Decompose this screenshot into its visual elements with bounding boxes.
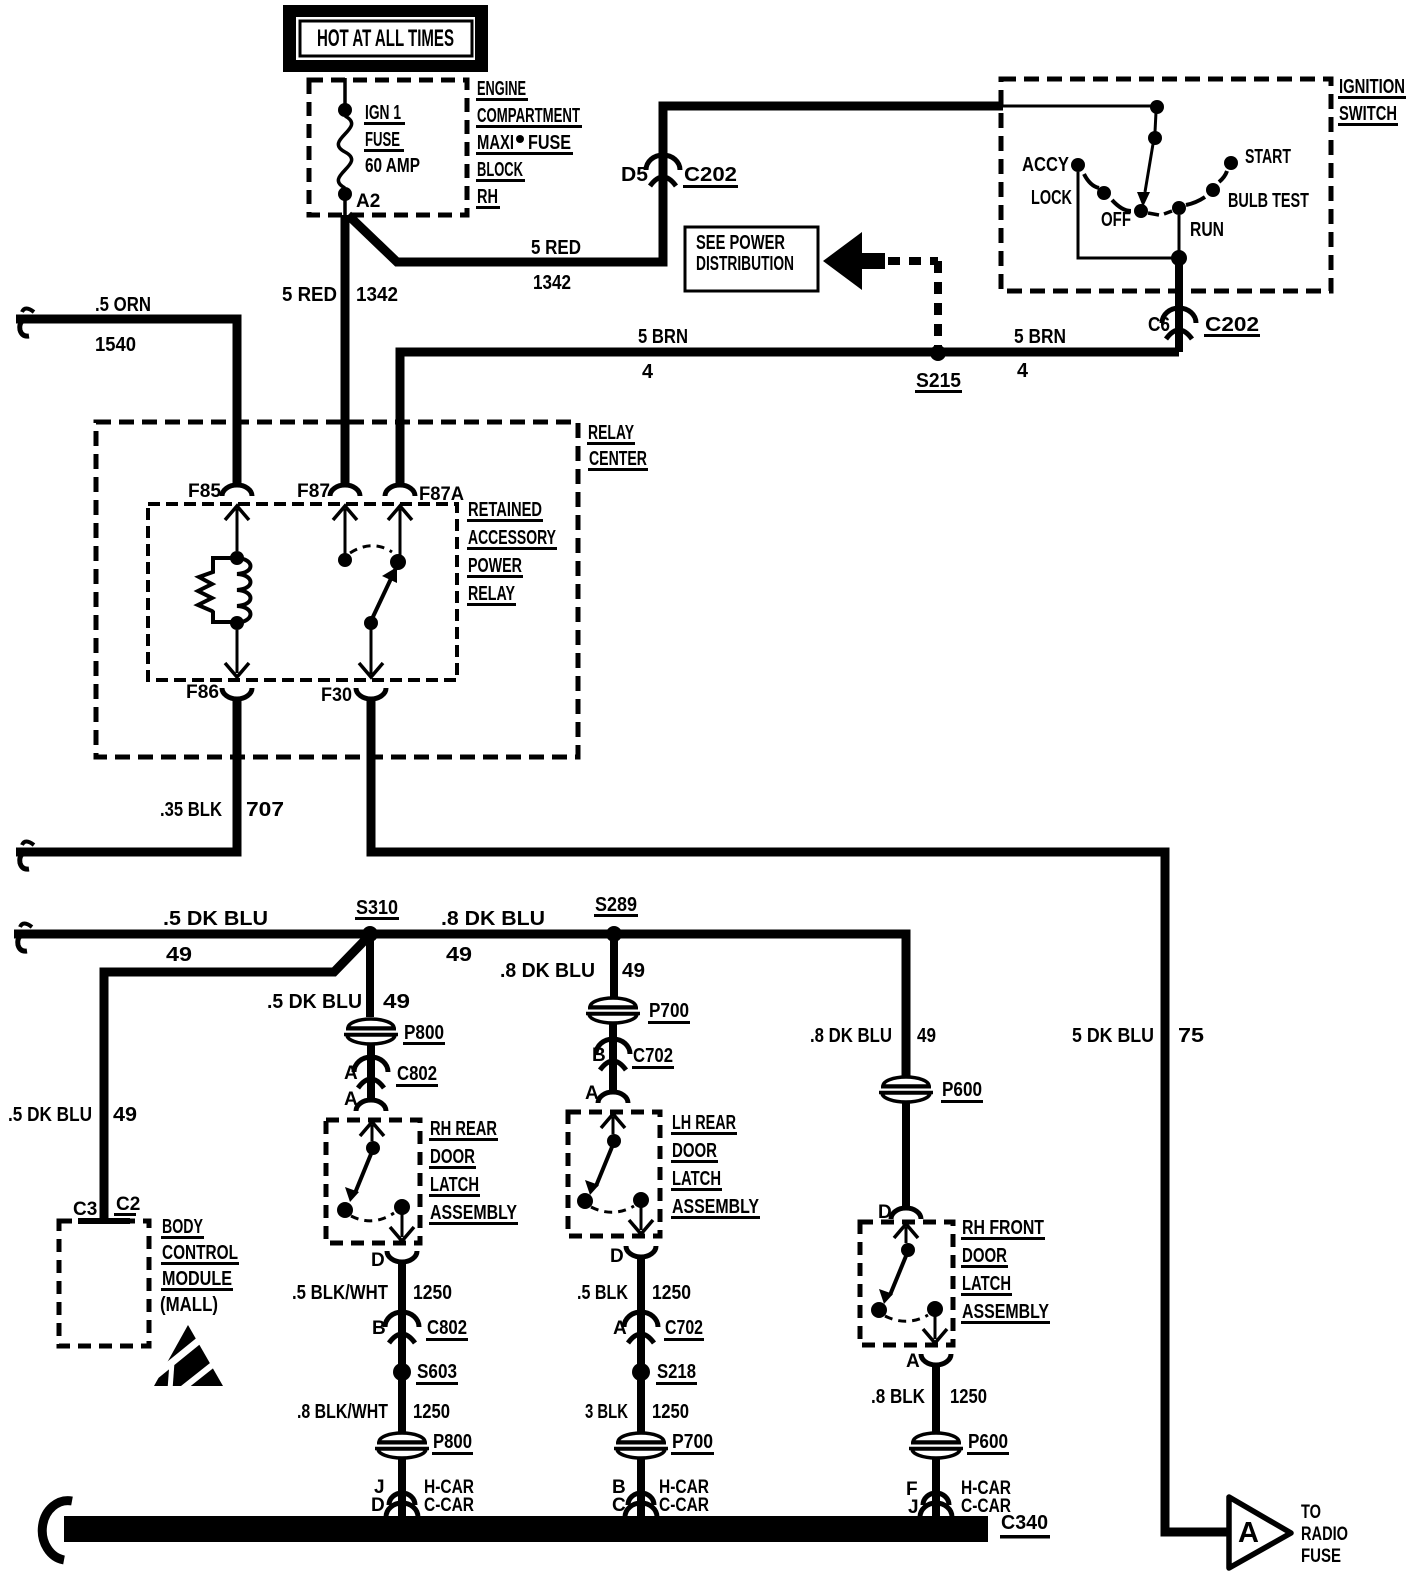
retained accessory power relay dashed box (148, 499, 557, 680)
svg-text:RETAINED: RETAINED (468, 499, 542, 521)
wire 5 RED 1342 branch from A2 to connector D5 C202 (348, 106, 1003, 294)
splice S218 (632, 1361, 697, 1385)
svg-text:RELAY: RELAY (468, 583, 515, 605)
svg-text:49: 49 (917, 1025, 936, 1047)
wire to rh front latch pin D (878, 1102, 921, 1223)
svg-text:START: START (1245, 146, 1291, 168)
svg-text:RADIO: RADIO (1301, 1524, 1348, 1545)
ignition switch contact START (1224, 146, 1291, 170)
svg-text:A: A (585, 1083, 599, 1104)
svg-text:.5 BLK/WHT: .5 BLK/WHT (292, 1282, 388, 1304)
connector B H-CAR C C-CAR to ground bus (612, 1459, 709, 1517)
svg-text:SEE POWER: SEE POWER (696, 232, 785, 254)
svg-text:C-CAR: C-CAR (659, 1495, 709, 1516)
latch pin D (610, 1246, 656, 1267)
svg-text:1250: 1250 (652, 1401, 689, 1423)
svg-text:ACCY: ACCY (1022, 154, 1070, 176)
svg-text:RELAY: RELAY (588, 422, 634, 444)
ignition switch output wiring to RUN junction (1078, 172, 1187, 352)
svg-text:49: 49 (113, 1104, 137, 1126)
engine compartment maxi fuse block dashed box (309, 80, 467, 215)
svg-text:C3: C3 (73, 1199, 97, 1220)
svg-text:S215: S215 (916, 370, 961, 392)
relay pin F30 (321, 663, 386, 706)
svg-text:HOT AT ALL TIMES: HOT AT ALL TIMES (317, 25, 454, 52)
ground bus C340 (42, 1501, 1050, 1560)
svg-text:RH REAR: RH REAR (430, 1118, 497, 1140)
svg-text:4: 4 (642, 361, 654, 383)
svg-text:C: C (612, 1495, 626, 1516)
relay pin F86 (186, 630, 252, 703)
svg-text:S603: S603 (417, 1361, 457, 1383)
svg-text:C6: C6 (1148, 314, 1170, 336)
svg-text:IGNITION: IGNITION (1339, 76, 1405, 98)
svg-text:A: A (613, 1318, 627, 1339)
svg-text:5 RED: 5 RED (531, 237, 581, 259)
relay coil with suppression resistor (198, 551, 251, 630)
svg-text:49: 49 (383, 991, 410, 1013)
svg-text:.8 BLK/WHT: .8 BLK/WHT (297, 1401, 388, 1423)
svg-text:F87: F87 (297, 481, 330, 502)
svg-text:ASSEMBLY: ASSEMBLY (962, 1301, 1050, 1323)
wire 3 BLK 1250 (585, 1380, 689, 1432)
svg-text:BLOCK: BLOCK (477, 159, 523, 181)
svg-text:707: 707 (246, 799, 284, 821)
svg-text:FUSE: FUSE (365, 129, 400, 151)
svg-text:60 AMP: 60 AMP (365, 155, 420, 177)
svg-text:.5 DK BLU: .5 DK BLU (267, 991, 362, 1013)
svg-text:S310: S310 (356, 897, 398, 919)
svg-text:LOCK: LOCK (1031, 187, 1072, 209)
svg-text:DISTRIBUTION: DISTRIBUTION (696, 253, 794, 275)
wire .5 ORN 1540 to relay F85 (16, 294, 237, 487)
svg-text:A: A (344, 1089, 358, 1110)
connector C802 pin A (344, 1057, 438, 1088)
svg-text:A: A (1238, 1517, 1259, 1549)
svg-text:C-CAR: C-CAR (424, 1495, 474, 1516)
svg-text:1342: 1342 (533, 272, 571, 294)
splice S215 (915, 345, 962, 393)
svg-text:5 BRN: 5 BRN (638, 326, 688, 348)
svg-text:D: D (371, 1250, 385, 1271)
svg-text:D: D (371, 1495, 385, 1516)
wire .5 DK BLU 49 from S310 down (267, 938, 410, 1017)
svg-text:1250: 1250 (413, 1282, 452, 1304)
svg-text:BODY: BODY (162, 1216, 203, 1238)
ignition switch contact LOCK (1031, 186, 1111, 209)
wire .35 BLK 707 from F86 to left (16, 698, 284, 869)
svg-text:C802: C802 (427, 1317, 467, 1339)
svg-text:ASSEMBLY: ASSEMBLY (672, 1196, 760, 1218)
svg-text:B: B (372, 1318, 386, 1339)
svg-text:MAXI: MAXI (477, 132, 514, 154)
lh rear door latch switch (577, 1114, 653, 1234)
svg-text:IGN 1: IGN 1 (365, 102, 401, 124)
svg-text:MODULE: MODULE (162, 1268, 232, 1290)
svg-text:COMPARTMENT: COMPARTMENT (477, 105, 580, 127)
svg-text:P600: P600 (968, 1431, 1008, 1453)
ignition switch contact BULB TEST (1206, 183, 1309, 212)
svg-text:S218: S218 (657, 1361, 696, 1383)
svg-text:RH: RH (477, 186, 498, 208)
svg-text:C340: C340 (1001, 1512, 1048, 1534)
relay pin F87A (385, 484, 464, 556)
svg-text:4: 4 (1017, 360, 1029, 382)
svg-text:FUSE: FUSE (528, 132, 571, 154)
svg-text:49: 49 (622, 960, 645, 982)
wire 5 BRN 4 from C6 to relay F87A (400, 326, 1179, 487)
connector F H-CAR J C-CAR to ground bus (906, 1459, 1011, 1518)
connector D5 C202 (621, 155, 738, 188)
rh front door latch switch (871, 1224, 947, 1343)
svg-text:A: A (906, 1351, 920, 1372)
arrow to see power distribution (823, 232, 885, 290)
connector C702 pin A (613, 1312, 704, 1343)
svg-text:DOOR: DOOR (430, 1146, 475, 1168)
svg-text:F30: F30 (321, 685, 352, 706)
svg-text:C702: C702 (633, 1045, 673, 1067)
svg-text:1250: 1250 (413, 1401, 450, 1423)
svg-text:49: 49 (166, 944, 192, 966)
svg-text:.5 DK BLU: .5 DK BLU (8, 1104, 92, 1126)
svg-text:(MALL): (MALL) (160, 1294, 218, 1316)
wire .5 DK BLU 49 door lock feed bus (14, 908, 906, 1076)
connector C6 C202 (1148, 308, 1260, 339)
svg-text:1250: 1250 (950, 1386, 987, 1408)
relay switch (338, 546, 406, 674)
wire .5 BLK 1250 (577, 1257, 691, 1364)
engine compartment maxi fuse block rh label (476, 78, 582, 209)
svg-text:CENTER: CENTER (589, 448, 647, 470)
svg-text:C202: C202 (684, 164, 737, 186)
wire 5 DK BLU 75 from F30 to radio fuse (371, 698, 1228, 1532)
svg-text:.8 BLK: .8 BLK (871, 1386, 925, 1408)
ignition switch contact RUN (1172, 201, 1224, 241)
ignition switch contact OFF (1101, 204, 1148, 231)
svg-text:49: 49 (446, 944, 472, 966)
connector J H-CAR D C-CAR to ground bus (371, 1459, 474, 1517)
svg-text:1540: 1540 (95, 334, 136, 356)
svg-text:P600: P600 (942, 1079, 982, 1101)
svg-text:F85: F85 (188, 481, 221, 502)
relay pin F85 (188, 481, 252, 551)
relay pin F87 (297, 481, 360, 554)
see power distribution reference box (685, 227, 818, 291)
svg-text:LH REAR: LH REAR (672, 1112, 736, 1134)
svg-text:D5: D5 (621, 164, 648, 186)
svg-text:.5 ORN: .5 ORN (95, 294, 151, 316)
svg-text:B: B (592, 1045, 606, 1066)
svg-text:.35 BLK: .35 BLK (160, 799, 222, 821)
rh rear door latch assembly dashed box (326, 1118, 518, 1243)
svg-text:A2: A2 (356, 191, 380, 212)
latch pin A (344, 1089, 386, 1111)
svg-text:3 BLK: 3 BLK (585, 1401, 628, 1423)
connector C802 pin B (372, 1312, 468, 1343)
svg-text:SWITCH: SWITCH (1339, 103, 1397, 125)
svg-text:LATCH: LATCH (962, 1273, 1011, 1295)
wire to connector C802 (367, 1044, 375, 1100)
wire .8 BLK 1250 (871, 1365, 987, 1432)
splice S603 (393, 1361, 458, 1385)
grommet P800 (344, 1019, 445, 1045)
latch pin A (585, 1083, 628, 1104)
splice S310 (355, 897, 399, 942)
svg-text:DOOR: DOOR (962, 1245, 1007, 1267)
svg-text:POWER: POWER (468, 555, 522, 577)
svg-text:F87A: F87A (419, 484, 464, 505)
grommet P700 (586, 998, 690, 1024)
svg-text:ENGINE: ENGINE (477, 78, 526, 100)
connector C702 pin B (592, 1023, 674, 1092)
svg-text:.8 DK BLU: .8 DK BLU (810, 1025, 892, 1047)
svg-text:D: D (610, 1246, 624, 1267)
body control module dashed box (59, 1216, 239, 1346)
svg-text:A: A (344, 1063, 358, 1084)
dashed wire from S215 to arrow (888, 261, 938, 346)
grommet P800 lower (375, 1431, 473, 1458)
svg-text:.5 BLK: .5 BLK (577, 1282, 628, 1304)
wire .8 DK BLU 49 from S289 down (500, 938, 645, 997)
svg-text:P800: P800 (433, 1431, 472, 1453)
grommet P700 lower (614, 1431, 714, 1458)
latch pin A (906, 1351, 951, 1372)
svg-text:DOOR: DOOR (672, 1140, 717, 1162)
svg-text:C2: C2 (116, 1194, 140, 1215)
svg-text:RUN: RUN (1190, 219, 1224, 241)
svg-text:J: J (908, 1497, 919, 1518)
relay center dashed box (96, 422, 648, 757)
ignition switch detent arcs (1084, 171, 1227, 215)
svg-text:1250: 1250 (652, 1282, 691, 1304)
splice S289 (594, 894, 638, 942)
svg-text:FUSE: FUSE (1301, 1546, 1341, 1567)
svg-text:75: 75 (1178, 1025, 1204, 1047)
rh rear door latch switch (337, 1122, 414, 1241)
svg-text:TO: TO (1301, 1502, 1321, 1523)
svg-text:BULB TEST: BULB TEST (1228, 190, 1309, 212)
ESD sensitive device symbol (154, 1325, 225, 1393)
svg-text:P800: P800 (404, 1022, 444, 1044)
lh rear door latch assembly dashed box (568, 1112, 760, 1236)
svg-text:C702: C702 (665, 1317, 703, 1339)
svg-text:P700: P700 (672, 1431, 713, 1453)
grommet P600 (879, 1077, 983, 1103)
svg-text:S289: S289 (595, 894, 637, 916)
svg-text:.5 DK BLU: .5 DK BLU (163, 908, 268, 930)
svg-text:LATCH: LATCH (430, 1174, 479, 1196)
wire .8 BLK/WHT 1250 (297, 1380, 450, 1432)
grommet P600 lower (909, 1431, 1009, 1458)
svg-text:5 DK BLU: 5 DK BLU (1072, 1025, 1154, 1047)
svg-text:C802: C802 (397, 1063, 437, 1085)
svg-text:LATCH: LATCH (672, 1168, 721, 1190)
svg-text:RH FRONT: RH FRONT (962, 1217, 1044, 1239)
svg-text:1342: 1342 (356, 284, 398, 306)
ignition switch dashed box (1001, 76, 1406, 291)
wire .5 DK BLU 49 from S310 to body control module (8, 939, 366, 1218)
off-page reference A to radio fuse (1229, 1497, 1348, 1568)
wire .8 DK BLU 49 right branch labels (810, 1025, 936, 1047)
svg-text:.8 DK BLU: .8 DK BLU (500, 960, 595, 982)
svg-text:CONTROL: CONTROL (162, 1242, 238, 1264)
svg-text:5 RED: 5 RED (282, 284, 337, 306)
hot-at-all-times power tag (283, 5, 488, 72)
svg-text:C202: C202 (1205, 314, 1259, 336)
svg-text:.8 DK BLU: .8 DK BLU (441, 908, 545, 930)
svg-text:5 BRN: 5 BRN (1014, 326, 1066, 348)
wire .5 BLK/WHT 1250 (292, 1262, 452, 1364)
svg-text:F86: F86 (186, 682, 219, 703)
latch pin D (371, 1250, 417, 1271)
svg-text:P700: P700 (649, 1000, 689, 1022)
connector C3 C2 at body control module (73, 1194, 140, 1224)
fuse IGN 1 60A (338, 78, 420, 215)
wire 5 RED 1342 from A2 down to relay F87 (282, 215, 398, 487)
svg-text:ASSEMBLY: ASSEMBLY (430, 1202, 518, 1224)
rh front door latch assembly dashed box (860, 1217, 1050, 1345)
svg-text:ACCESSORY: ACCESSORY (468, 527, 556, 549)
ignition switch contact ACCY (1022, 154, 1085, 176)
ignition switch internal feed wire (1003, 100, 1164, 207)
